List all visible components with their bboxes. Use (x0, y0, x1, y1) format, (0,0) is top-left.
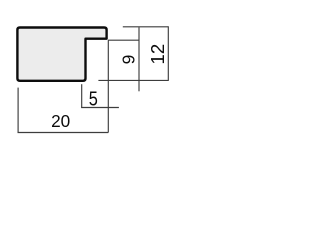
svg-text:20: 20 (51, 111, 70, 131)
svg-text:12: 12 (147, 44, 168, 65)
wire: right vertical extension (107, 40, 109, 132)
wire: dimension line 5 (81, 107, 119, 109)
wire: left extension line (17, 88, 19, 133)
wire: dimension line 9 (138, 27, 140, 91)
wire: rebate extension line (81, 84, 83, 107)
svg-text:9: 9 (118, 55, 138, 65)
wire: dimension line 20 (18, 132, 109, 134)
svg-text:5: 5 (89, 87, 98, 110)
moulding profile cross-section (17, 28, 106, 81)
wire: shelf extension line (108, 39, 139, 41)
wire: top extension line (123, 26, 169, 28)
wire: dimension line 12 (167, 26, 169, 81)
wire: bottom extension line (98, 79, 168, 81)
